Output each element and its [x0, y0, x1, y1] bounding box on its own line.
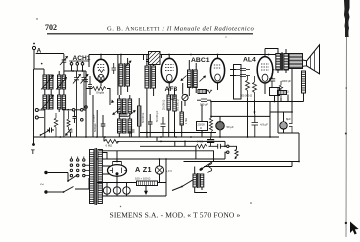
- tube AZ1 rectifier: [108, 162, 127, 183]
- svg-text:AL4: AL4: [243, 57, 256, 64]
- capacitor 500pF: [197, 99, 211, 102]
- switch contacts row mid: [62, 109, 86, 122]
- pilot lamp: [155, 159, 163, 183]
- speaker field coil: [302, 71, 306, 102]
- output transformer: [265, 49, 288, 74]
- svg-text:Griglia: Griglia: [96, 91, 105, 95]
- transformer antenna coil band1: [43, 69, 53, 90]
- electrolytic 50uF: [216, 116, 224, 137]
- tube ABC1: [210, 55, 224, 91]
- coupling capacitors: [236, 69, 250, 71]
- svg-text:A Z1: A Z1: [135, 165, 152, 174]
- svg-text:AF3: AF3: [165, 86, 178, 93]
- oscillator coil assembly: [111, 95, 135, 137]
- tube AF3: [161, 55, 177, 89]
- band switch contacts row top: [69, 61, 89, 71]
- arrow down center tap: [145, 186, 147, 192]
- node T terminal junction: [32, 143, 35, 146]
- svg-text:ACH1: ACH1: [73, 55, 91, 62]
- svg-text:50.000 Ω: 50.000 Ω: [142, 113, 145, 123]
- electrolytic can: [280, 112, 293, 133]
- svg-text:25.000 Ω: 25.000 Ω: [163, 100, 166, 110]
- zigzag resistor right of box: [279, 81, 282, 98]
- power transformer: [90, 148, 103, 205]
- box 25000 ohm: [197, 122, 208, 131]
- svg-text:300.000 Ω: 300.000 Ω: [240, 94, 252, 98]
- svg-text:5 MΩ: 5 MΩ: [197, 140, 203, 144]
- svg-text:ABC1: ABC1: [191, 57, 210, 64]
- hatched resistor right mid: [278, 91, 287, 95]
- svg-text:100pF: 100pF: [92, 114, 96, 122]
- diode arrow left: [181, 76, 187, 81]
- resistor 6M in B+ line: [103, 137, 105, 141]
- svg-text:500.000 Ω: 500.000 Ω: [177, 99, 180, 111]
- capacitor small: [47, 128, 54, 133]
- wire AL4 to transformer top: [264, 49, 266, 55]
- tube ACH1: [94, 55, 109, 87]
- potentiometer circle: [182, 94, 188, 100]
- lamps bottom rail: [103, 183, 166, 196]
- page edge dark bar top right: [344, 0, 350, 237]
- svg-text:4,9 μF: 4,9 μF: [260, 123, 268, 127]
- rails y101.5 y112: [211, 102, 304, 113]
- terminal phono in 1: [35, 109, 38, 112]
- tube AL4: [257, 55, 273, 95]
- transformer antenna coil band2: [43, 94, 53, 110]
- wire bottom rail y159: [96, 158, 225, 160]
- svg-text:6,3 V: 6,3 V: [166, 169, 173, 173]
- terminal phono in 2: [35, 116, 38, 119]
- svg-text:SIEMENS S.A. - MOD. « T 570 FO: SIEMENS S.A. - MOD. « T 570 FONO »: [110, 211, 241, 220]
- svg-text:500 pF: 500 pF: [200, 103, 208, 107]
- switch wave band left: [41, 131, 50, 136]
- capacitor left of osc: [101, 115, 106, 137]
- mains wires and switch: [48, 173, 68, 182]
- wire row y71: [64, 70, 87, 72]
- trimmer arrow dark: [66, 129, 72, 136]
- svg-text:702: 702: [45, 23, 57, 32]
- resistor on rail 146: [196, 144, 207, 148]
- cap bottom left pair: [148, 114, 153, 137]
- wires right section verticals: [278, 69, 299, 162]
- cap right of ACH1: [112, 63, 117, 74]
- svg-text:G. B. ANGELETTI : Il Manuale d: G. B. ANGELETTI : Il Manuale del Radiote…: [107, 26, 254, 33]
- padder blob: [73, 111, 77, 123]
- wire antenna down: [34, 50, 64, 69]
- capacitor at osc coil bottom: [129, 126, 135, 137]
- wire coil links: [45, 66, 64, 137]
- header rule: [47, 33, 253, 35]
- resistor hatch horiz + squiggle: [198, 90, 212, 94]
- capacitor under rail dot: [146, 55, 153, 62]
- cap under transformer: [269, 73, 275, 88]
- secondary coils right: [58, 75, 66, 109]
- resistor small vert: [67, 111, 70, 130]
- resistor 100+100: [135, 177, 158, 186]
- box 50000 ohm right: [270, 88, 280, 96]
- coupling shield rect: [234, 65, 242, 100]
- svg-text:5000pF: 5000pF: [93, 123, 97, 132]
- IF transformer to AF3: [145, 55, 156, 138]
- right vert of ACH1 box: [117, 55, 119, 96]
- IF transformer 2: [188, 60, 198, 96]
- mains terminal 1: [44, 171, 47, 174]
- speaker cone: [303, 45, 320, 74]
- mouse cursor bottom right: [350, 222, 359, 235]
- svg-text:1 MΩ: 1 MΩ: [185, 118, 188, 124]
- bottom rail: [97, 182, 166, 184]
- long wires bottom right: [184, 161, 300, 167]
- mains terminal 2: [44, 190, 47, 193]
- diode arrow right: [200, 76, 206, 82]
- svg-text:50 μF: 50 μF: [227, 125, 234, 129]
- svg-text:4000 pF: 4000 pF: [282, 79, 292, 83]
- tuning gang capacitor 2: [81, 71, 89, 110]
- svg-text:~: ~: [40, 181, 44, 189]
- misc vertical wires upper mid: [144, 55, 162, 61]
- svg-text:8μF: 8μF: [286, 117, 291, 121]
- pickup coil arrow: [208, 163, 212, 173]
- dial lamps: [103, 183, 130, 195]
- wire top rail: [89, 54, 281, 56]
- coil arrows: [41, 76, 54, 90]
- svg-text:Ω: Ω: [200, 126, 202, 130]
- small speck: [36, 18, 37, 19]
- resistor pair vertical: [246, 76, 250, 99]
- B+ rails middle: [140, 132, 216, 134]
- resistor striped right of osc: [138, 98, 146, 137]
- svg-text:100 + 100 Ω: 100 + 100 Ω: [135, 177, 150, 181]
- wire loop over AZ1: [99, 151, 214, 162]
- resistor below ACH1: [92, 87, 106, 91]
- feedthrough cap on rail141: [207, 140, 214, 143]
- hatched shield box: [149, 52, 161, 65]
- speaker driver: [289, 54, 303, 69]
- svg-text:50.000 pF: 50.000 pF: [156, 110, 159, 122]
- resistor 3M vert: [54, 113, 58, 137]
- node A antenna terminal: [33, 43, 35, 45]
- series cap + connector + coil: [209, 141, 227, 146]
- capacitor 4,9uF bottom: [252, 114, 259, 137]
- svg-text:25000: 25000: [198, 123, 206, 127]
- wires mid right: [230, 70, 255, 138]
- phono transformer: [193, 173, 204, 188]
- tuning gang capacitor 1: [73, 71, 81, 137]
- ground bus main: [34, 136, 280, 138]
- wires transformer secondary: [102, 153, 110, 183]
- voltage selector: [70, 157, 89, 177]
- svg-text:6 MΩ: 6 MΩ: [106, 144, 113, 148]
- switch phono: [182, 180, 194, 187]
- trimmer cap near A: [60, 54, 68, 66]
- resistor bank AF3: [167, 88, 183, 137]
- wire left rail: [33, 69, 35, 144]
- IF coil ACH1 anode: [119, 55, 132, 96]
- svg-text:T: T: [31, 150, 35, 156]
- padder caps pair: [84, 71, 88, 137]
